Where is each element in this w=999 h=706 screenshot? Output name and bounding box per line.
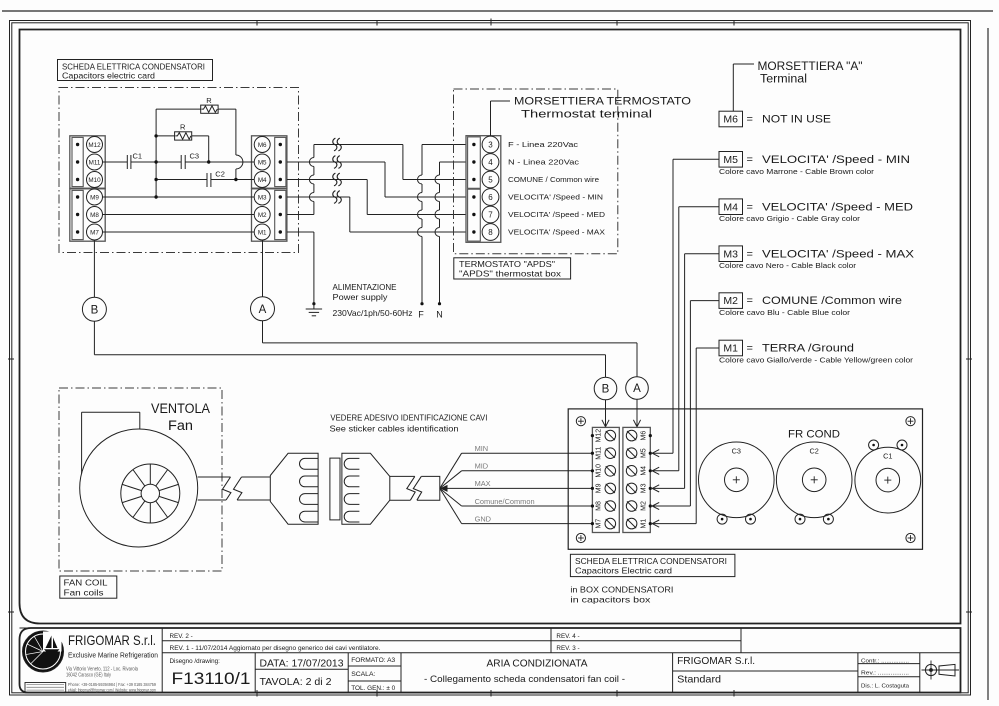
svg-text:TERMOSTATO "APDS": TERMOSTATO "APDS" [459, 259, 555, 269]
svg-text:Colore cavo Grigio - Cable Gra: Colore cavo Grigio - Cable Gray color [719, 214, 861, 223]
svg-text:TERRA /Ground: TERRA /Ground [762, 343, 854, 355]
svg-text:Rev.: .................: Rev.: ................. [861, 670, 909, 676]
svg-text:in BOX CONDENSATORI: in BOX CONDENSATORI [570, 585, 673, 595]
svg-text:ARIA CONDIZIONATA: ARIA CONDIZIONATA [487, 658, 588, 669]
svg-text:M12: M12 [88, 142, 101, 149]
svg-text:in capacitors box: in capacitors box [570, 595, 651, 605]
svg-text:C2: C2 [810, 447, 819, 456]
svg-text:VELOCITA' /Speed - MAX: VELOCITA' /Speed - MAX [508, 228, 605, 237]
svg-text:16042 Carasco (GE) Italy: 16042 Carasco (GE) Italy [66, 673, 111, 679]
svg-text:F: F [418, 310, 424, 320]
svg-text:See sticker cables identificat: See sticker cables identification [330, 425, 459, 434]
svg-text:COMUNE / Common wire: COMUNE / Common wire [508, 175, 599, 184]
svg-text:M5: M5 [640, 448, 647, 458]
svg-text:M4: M4 [258, 177, 267, 184]
svg-text:=: = [747, 248, 753, 260]
svg-text:VELOCITA' /Speed - MED: VELOCITA' /Speed - MED [762, 201, 913, 213]
svg-text:FRIGOMAR S.r.l.: FRIGOMAR S.r.l. [68, 632, 156, 648]
svg-text:M12: M12 [596, 429, 603, 443]
svg-text:Standard: Standard [677, 674, 721, 685]
svg-text:eMail: frigomar@frigomar.com |: eMail: frigomar@frigomar.com | Website: … [68, 687, 156, 692]
svg-text:M7: M7 [90, 229, 99, 236]
svg-text:M6: M6 [640, 431, 647, 441]
svg-text:VEDERE ADESIVO IDENTIFICAZIONE: VEDERE ADESIVO IDENTIFICAZIONE CAVI [330, 414, 487, 423]
svg-text:M6: M6 [258, 142, 267, 149]
svg-text:Colore cavo Nero - Cable Black: Colore cavo Nero - Cable Black color [719, 261, 857, 270]
svg-text:Exclusive Marine Refrigeration: Exclusive Marine Refrigeration [68, 650, 158, 659]
svg-text:M1: M1 [723, 343, 738, 355]
svg-text:Terminal: Terminal [760, 74, 807, 86]
svg-text:Capacitors Electric card: Capacitors Electric card [575, 566, 672, 576]
svg-text:MAX: MAX [475, 479, 491, 488]
svg-text:M11: M11 [596, 447, 603, 460]
svg-text:Colore cavo Marrone - Cable Br: Colore cavo Marrone - Cable Brown color [719, 167, 875, 176]
svg-text:TOL. GEN.: ± 0: TOL. GEN.: ± 0 [351, 685, 395, 692]
svg-text:VENTOLA: VENTOLA [151, 401, 210, 416]
svg-text:M9: M9 [90, 194, 99, 201]
svg-text:M7: M7 [596, 519, 603, 529]
svg-text:M1: M1 [258, 229, 267, 236]
svg-text:M2: M2 [723, 295, 738, 307]
svg-text:FR COND: FR COND [788, 429, 840, 441]
svg-text:FRIGOMAR S.r.l.: FRIGOMAR S.r.l. [677, 656, 755, 667]
svg-text:REV. 1 - 11/07/2014 Aggiornato: REV. 1 - 11/07/2014 Aggiornato per diseg… [170, 645, 381, 652]
svg-text:M2: M2 [258, 212, 267, 219]
svg-text:C2: C2 [215, 170, 225, 179]
svg-text:A: A [633, 383, 641, 395]
svg-text:FAN COIL: FAN COIL [64, 577, 108, 587]
svg-text:SCHEDA ELETTRICA CONDENSATORI: SCHEDA ELETTRICA CONDENSATORI [575, 556, 727, 566]
svg-text:N: N [436, 310, 443, 320]
svg-text:MORSETTIERA TERMOSTATO: MORSETTIERA TERMOSTATO [514, 96, 691, 108]
svg-text:M3: M3 [723, 248, 738, 260]
svg-text:M8: M8 [90, 212, 99, 219]
svg-text:FORMATO: A3: FORMATO: A3 [351, 657, 395, 664]
svg-text:- Collegamento scheda condensa: - Collegamento scheda condensatori fan c… [424, 674, 625, 685]
svg-text:M1: M1 [640, 519, 647, 529]
svg-text:VELOCITA' /Speed - MIN: VELOCITA' /Speed - MIN [508, 193, 603, 202]
svg-text:Power supply: Power supply [333, 292, 389, 302]
svg-text:C3: C3 [732, 447, 741, 456]
svg-text:REV. 3 -: REV. 3 - [556, 645, 579, 652]
svg-text:C1: C1 [883, 452, 892, 461]
svg-text:F13110/1: F13110/1 [172, 670, 251, 688]
svg-text:230Vac/1ph/50-60Hz: 230Vac/1ph/50-60Hz [333, 308, 413, 318]
svg-text:5: 5 [488, 175, 493, 184]
svg-text:3: 3 [488, 140, 493, 149]
svg-text:=: = [747, 343, 753, 355]
svg-text:M3: M3 [258, 194, 267, 201]
svg-text:M6: M6 [723, 114, 738, 126]
svg-text:Disegno /drawing:: Disegno /drawing: [170, 658, 221, 665]
svg-text:NOT IN USE: NOT IN USE [762, 114, 831, 126]
svg-text:M8: M8 [596, 501, 603, 511]
svg-text:MID: MID [475, 462, 489, 471]
svg-text:SCALA:: SCALA: [351, 671, 375, 678]
svg-text:Phone: +39-0185-59394984 |: Phone: +39-0185-59394984 | Fax: +39 0185… [68, 682, 157, 687]
svg-text:8: 8 [488, 228, 493, 237]
svg-text:M4: M4 [640, 466, 647, 476]
svg-text:"APDS" thermostat box: "APDS" thermostat box [459, 268, 562, 278]
svg-text:C3: C3 [190, 152, 200, 161]
svg-text:R: R [206, 96, 212, 105]
svg-text:Colore cavo Blu - Cable Blue c: Colore cavo Blu - Cable Blue color [719, 308, 851, 317]
svg-text:7: 7 [488, 210, 493, 219]
svg-text:M9: M9 [596, 483, 603, 493]
svg-text:4: 4 [488, 158, 493, 167]
svg-text:REV. 4 -: REV. 4 - [556, 633, 579, 640]
svg-text:VELOCITA' /Speed - MED: VELOCITA' /Speed - MED [508, 210, 605, 219]
svg-text:M5: M5 [723, 154, 738, 166]
svg-text:A: A [259, 304, 267, 316]
svg-text:M5: M5 [258, 159, 267, 166]
svg-text:M11: M11 [89, 159, 101, 166]
svg-text:=: = [747, 114, 753, 126]
svg-text:TAVOLA: 2 di 2: TAVOLA: 2 di 2 [260, 677, 332, 688]
svg-text:F - Linea 220Vac: F - Linea 220Vac [508, 140, 578, 149]
svg-text:M10: M10 [88, 177, 101, 184]
svg-text:ALIMENTAZIONE: ALIMENTAZIONE [333, 282, 397, 292]
svg-text:M3: M3 [640, 483, 647, 493]
svg-text:Dis.: L. Costaguta: Dis.: L. Costaguta [861, 683, 909, 689]
svg-text:M10: M10 [596, 464, 603, 478]
svg-text:Thermostat terminal: Thermostat terminal [521, 109, 652, 121]
svg-text:=: = [747, 154, 753, 166]
svg-text:N - Linea 220Vac: N - Linea 220Vac [508, 158, 579, 167]
svg-text:B: B [602, 384, 610, 396]
svg-text:Colore cavo Giallo/verde - Cab: Colore cavo Giallo/verde - Cable Yellow/… [719, 356, 914, 365]
svg-text:MORSETTIERA "A": MORSETTIERA "A" [758, 61, 863, 73]
svg-text:M2: M2 [640, 501, 647, 511]
svg-text:Contr.: ................: Contr.: ................ [861, 658, 909, 664]
svg-text:Fan coils: Fan coils [64, 587, 104, 597]
svg-text:6: 6 [488, 193, 493, 202]
svg-text:VELOCITA' /Speed - MAX: VELOCITA' /Speed - MAX [762, 248, 915, 260]
svg-text:Comune/Common: Comune/Common [475, 497, 535, 506]
svg-text:REV. 2 -: REV. 2 - [170, 633, 193, 640]
svg-text:GND: GND [475, 514, 491, 523]
svg-text:MIN: MIN [475, 444, 489, 453]
svg-text:COMUNE /Common wire: COMUNE /Common wire [762, 295, 902, 307]
svg-text:=: = [747, 201, 753, 213]
svg-text:Capacitors electric card: Capacitors electric card [62, 71, 155, 81]
svg-text:C1: C1 [133, 152, 143, 161]
svg-text:R: R [180, 123, 186, 132]
svg-text:DATA: 17/07/2013: DATA: 17/07/2013 [260, 658, 345, 669]
svg-text:VELOCITA' /Speed - MIN: VELOCITA' /Speed - MIN [762, 154, 910, 166]
svg-text:M4: M4 [723, 201, 738, 213]
svg-text:B: B [91, 304, 99, 316]
svg-text:Fan: Fan [168, 418, 193, 433]
svg-text:=: = [747, 295, 753, 307]
